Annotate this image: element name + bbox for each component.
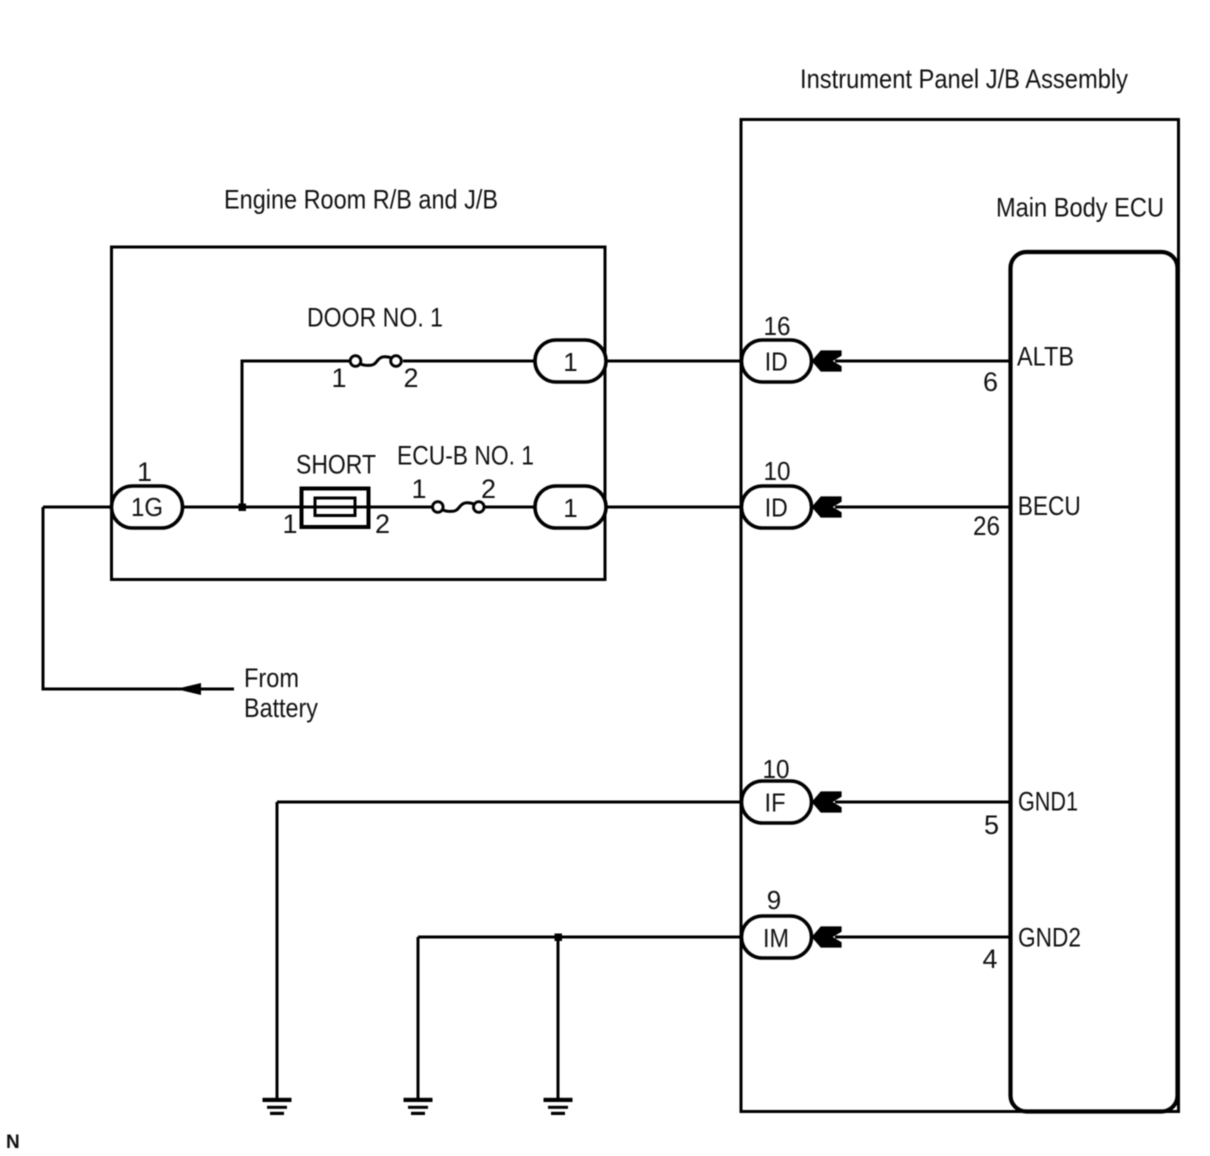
svg-text:2: 2 <box>403 363 418 393</box>
svg-text:ID: ID <box>765 493 788 523</box>
connector IM <box>742 916 812 958</box>
wire row2 1G to ECU-B fuse <box>183 506 432 509</box>
wire row1 arrow to ECU <box>835 360 1011 363</box>
junction row4 <box>555 934 563 942</box>
wire row2 arrow to ECU <box>835 506 1011 509</box>
harness arrow row3 <box>812 791 842 812</box>
ground G2 <box>404 1098 433 1115</box>
arrow from battery <box>176 683 201 695</box>
fuse ECU-B NO. 1 <box>433 502 485 513</box>
svg-text:BECU: BECU <box>1018 491 1081 521</box>
svg-text:10: 10 <box>764 456 791 486</box>
junction row2 <box>239 504 247 512</box>
svg-text:From: From <box>244 663 299 693</box>
svg-text:DOOR NO. 1: DOOR NO. 1 <box>307 303 443 333</box>
svg-text:1: 1 <box>137 457 152 487</box>
svg-text:1: 1 <box>282 509 297 539</box>
svg-text:Battery: Battery <box>244 693 318 723</box>
ground G3 <box>544 1098 573 1115</box>
wire row1 branch vertical <box>242 361 350 507</box>
svg-text:GND2: GND2 <box>1018 923 1081 953</box>
wire ground drop left <box>276 802 279 1100</box>
wire ground drop right <box>557 937 560 1100</box>
svg-text:4: 4 <box>982 944 997 974</box>
svg-text:1G: 1G <box>131 492 163 522</box>
svg-text:Instrument Panel J/B Assembly: Instrument Panel J/B Assembly <box>800 64 1128 94</box>
svg-text:ID: ID <box>765 347 788 377</box>
svg-text:Main Body ECU: Main Body ECU <box>996 193 1164 223</box>
wire row3 to IF <box>277 801 742 804</box>
svg-text:IM: IM <box>763 923 789 953</box>
connector ID row2 <box>742 486 812 528</box>
wire row1 fuse to oval <box>403 360 535 363</box>
harness arrow row1 <box>812 350 842 371</box>
fuse DOOR NO. 1 <box>350 356 401 367</box>
svg-text:16: 16 <box>764 311 791 341</box>
connector 1G <box>112 486 183 528</box>
wire row4 arrow to ECU <box>835 936 1011 939</box>
wire row2 from battery stub <box>43 506 112 509</box>
svg-text:IF: IF <box>765 788 786 818</box>
ECU Main Body ECU outline <box>1011 252 1178 1112</box>
svg-text:1: 1 <box>563 493 577 523</box>
connector 1 row2 <box>535 486 606 528</box>
svg-text:1: 1 <box>411 474 426 504</box>
svg-text:26: 26 <box>973 511 1000 541</box>
svg-text:ALTB: ALTB <box>1017 342 1074 372</box>
svg-text:Engine Room R/B and J/B: Engine Room R/B and J/B <box>224 185 498 215</box>
harness arrow row2 <box>812 496 842 517</box>
svg-text:ECU-B NO. 1: ECU-B NO. 1 <box>397 441 534 471</box>
svg-text:SHORT: SHORT <box>296 450 376 480</box>
connector IF <box>742 781 812 823</box>
svg-text:2: 2 <box>481 474 496 504</box>
wire ground drop mid <box>417 937 420 1100</box>
svg-text:9: 9 <box>767 885 781 915</box>
svg-text:1: 1 <box>331 363 346 393</box>
svg-text:N: N <box>6 1132 20 1153</box>
wire from battery run <box>43 507 234 689</box>
label From Battery <box>244 663 318 723</box>
wire row2 oval to ID <box>606 506 742 509</box>
ground G1 <box>263 1098 292 1115</box>
box Engine Room R/B and J/B <box>112 247 606 580</box>
wire row1 oval to ID <box>606 360 742 363</box>
svg-text:1: 1 <box>563 347 577 377</box>
svg-text:6: 6 <box>983 367 998 397</box>
svg-text:GND1: GND1 <box>1018 787 1078 817</box>
harness arrow row4 <box>812 926 842 947</box>
wire row2 fuse to oval <box>485 506 535 509</box>
connector ID row1 <box>742 340 812 382</box>
wire row3 arrow to ECU <box>835 801 1011 804</box>
connector 1 row1 <box>535 340 606 382</box>
svg-text:5: 5 <box>984 810 999 840</box>
svg-text:2: 2 <box>375 509 390 539</box>
wire row4 to IM <box>418 936 742 939</box>
svg-text:10: 10 <box>763 754 790 784</box>
fusible link SHORT <box>302 489 369 528</box>
box Instrument Panel J/B Assembly <box>741 120 1179 1112</box>
